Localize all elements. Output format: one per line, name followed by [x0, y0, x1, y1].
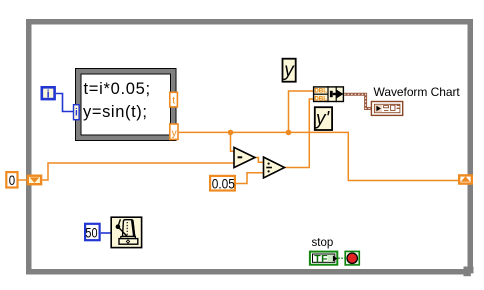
wire: 50 constant to wait function (blue) — [101, 232, 111, 234]
svg-text:DBL: DBL — [314, 88, 327, 95]
svg-text:y: y — [171, 127, 177, 139]
svg-text:i: i — [47, 89, 50, 101]
svg-text:t=i*0.05;: t=i*0.05; — [84, 80, 151, 98]
node: left shift register — [28, 176, 41, 185]
node: formula node i input tunnel — [74, 105, 80, 120]
wire: subtract output to divide top input — [255, 158, 264, 163]
node: constant 0.05 — [210, 176, 235, 192]
svg-text:y: y — [282, 60, 295, 81]
svg-text:t: t — [172, 95, 175, 107]
wire: 0.05 constant to divide bottom input — [236, 173, 264, 184]
wire: iteration terminal to formula node i input (blue) — [56, 94, 73, 112]
node: formula node y output tunnel — [170, 124, 178, 139]
svg-text:0: 0 — [9, 172, 15, 188]
node: stop boolean terminal TF — [310, 252, 337, 265]
node: junction dot 2 — [286, 130, 292, 136]
wire: boolean dotted wire stop to conditional terminal (green) — [338, 257, 344, 259]
node: junction dot 1 — [228, 130, 234, 136]
wire: left shift register to subtract bottom input — [42, 163, 234, 180]
svg-text:stop: stop — [312, 237, 334, 249]
wire: branch down to subtract top input — [231, 132, 235, 151]
node: formula node frame — [76, 69, 177, 141]
svg-text:DBL: DBL — [314, 96, 327, 103]
node: constant 0 — [6, 172, 17, 188]
svg-text:y=sin(t);: y=sin(t); — [83, 103, 148, 121]
svg-text:i: i — [75, 108, 78, 119]
svg-text:50: 50 — [85, 225, 97, 241]
wire: cluster wire bundle to waveform chart terminal — [344, 94, 371, 108]
node: bundle function — [313, 86, 343, 102]
node: waveform chart terminal — [371, 102, 402, 116]
wire: divide output up to bundle bottom input — [285, 99, 314, 168]
node: subtract function — [234, 147, 255, 167]
wire: branch up to bundle top input — [289, 91, 314, 132]
wire: formula y output to right shift register (main orange wire) — [179, 132, 458, 180]
wire: 0 constant to left shift register — [19, 179, 27, 181]
node: divide function — [264, 157, 285, 178]
label: formula node code text — [83, 80, 151, 121]
label: free label y — [282, 59, 295, 82]
node: wait until next ms multiple function — [111, 217, 141, 247]
node: formula node t output tunnel — [170, 92, 178, 107]
node: constant 50 — [85, 224, 100, 241]
svg-text:y': y' — [314, 109, 331, 130]
node: right shift register — [459, 175, 472, 183]
svg-text:TF: TF — [314, 253, 328, 265]
svg-text:0.05: 0.05 — [212, 176, 235, 192]
node: loop conditional terminal (stop sign) — [345, 251, 359, 265]
svg-text:Waveform Chart: Waveform Chart — [374, 85, 461, 99]
node: iteration terminal i — [42, 87, 55, 100]
label: local variable y' — [314, 107, 332, 130]
